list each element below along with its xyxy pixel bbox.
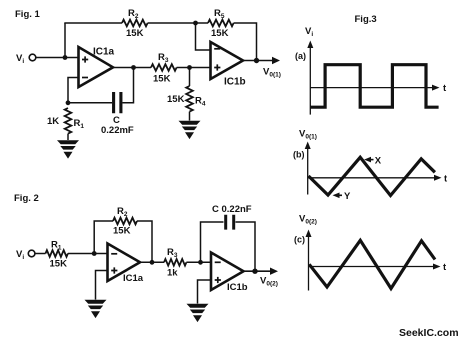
wire IC1a + input to ground (96, 271, 108, 300)
minus sign IC1b (214, 48, 220, 50)
resistor R3 (151, 64, 177, 71)
svg-text:IC1b: IC1b (227, 282, 248, 293)
junction Fig.2 mid node (150, 260, 155, 265)
svg-text:R4: R4 (195, 96, 206, 108)
svg-text:IC1b: IC1b (224, 77, 246, 88)
arrowhead t-axis (plot a) (432, 85, 440, 91)
wire junction to R5 (196, 22, 209, 24)
axis vertical (plot a) (309, 46, 311, 115)
plus sign IC1b (214, 64, 220, 70)
svg-text:SeekIC.com: SeekIC.com (399, 327, 459, 339)
resistor R2 (Fig.2) (113, 218, 137, 225)
wire R2 to junction (148, 22, 196, 24)
svg-text:V0(1): V0(1) (299, 129, 317, 141)
op-amp IC1a (Fig.2) (108, 244, 141, 282)
svg-text:V0(2): V0(2) (260, 276, 278, 288)
waveform square wave Vi (311, 65, 439, 108)
svg-text:R1: R1 (74, 118, 85, 130)
wire IC1b + input to ground (Fig.2) (198, 280, 212, 304)
svg-text:Fig. 1: Fig. 1 (15, 9, 41, 20)
svg-text:15K: 15K (167, 94, 185, 105)
resistor R3 (Fig.2) (164, 259, 186, 266)
axis horizontal (plot a) (310, 87, 434, 89)
ground (R4) (179, 121, 201, 139)
wire R3 to IC1b - input (Fig.2) (186, 261, 211, 263)
wire Vi to R1 (35, 253, 46, 255)
junction R4 node (187, 65, 192, 70)
svg-text:t: t (443, 262, 447, 273)
svg-text:1K: 1K (47, 116, 59, 127)
plus sign IC1a (Fig.2) (111, 267, 117, 273)
plus sign IC1b (Fig.2) (215, 277, 221, 283)
wire Vi to IC1a + input (36, 57, 79, 59)
waveform triangle V0(2) (309, 240, 435, 288)
axis vertical (plot c) (308, 235, 310, 291)
junction input node (63, 55, 68, 60)
wire R2 to output node (137, 221, 152, 262)
svg-text:R5: R5 (214, 8, 225, 20)
svg-text:t: t (444, 174, 448, 185)
svg-text:15K: 15K (113, 226, 131, 237)
arrow output V0(2) (270, 268, 278, 275)
wire feedback up and to R2 (94, 221, 113, 254)
resistor R5 (208, 20, 234, 27)
svg-text:V0(1): V0(1) (263, 67, 281, 79)
wire node down to R4 (189, 68, 191, 87)
ground (IC1b Fig.2) (187, 304, 209, 322)
wire IC1b output (Fig.2) (244, 270, 272, 272)
svg-text:t: t (443, 83, 447, 94)
wire node to capacitor C (68, 102, 112, 104)
wire IC1a - input loop (68, 78, 79, 103)
resistor R1 (65, 108, 72, 134)
junction output node V0(2) (252, 269, 257, 274)
wire top junction down to IC1b - input (196, 23, 211, 50)
wire top rail to R2 (64, 22, 122, 24)
wire junction up to top rail (64, 23, 66, 58)
svg-text:Y: Y (344, 191, 351, 202)
svg-text:Fig. 2: Fig. 2 (14, 193, 39, 204)
wire capacitor to output node (Fig.2) (236, 222, 256, 271)
junction feedback node (66, 100, 71, 105)
svg-text:V0(2): V0(2) (299, 214, 317, 226)
svg-text:X: X (375, 155, 382, 166)
wire IC1a output to R3 (Fig.2) (140, 261, 164, 263)
arrowhead v-axis (plot b) (305, 142, 311, 150)
resistor R4 (186, 86, 193, 112)
capacitor C (Fig.2) (226, 215, 234, 230)
resistor R1 (Fig.2) (46, 250, 68, 257)
svg-text:IC1a: IC1a (93, 47, 115, 58)
wire R5 to output node (234, 23, 257, 60)
svg-text:15K: 15K (211, 28, 229, 39)
minus sign IC1a (82, 77, 88, 79)
svg-text:R3: R3 (158, 52, 169, 64)
svg-text:R2: R2 (117, 206, 128, 218)
resistor R2 (122, 20, 148, 27)
junction top node (193, 21, 198, 26)
svg-text:Vi: Vi (16, 249, 24, 261)
wire capacitor to output junction (123, 68, 134, 103)
ground (R1) (57, 140, 79, 158)
svg-text:(a): (a) (295, 51, 306, 61)
svg-text:(c): (c) (294, 235, 305, 245)
wire R3 to IC1b + input (177, 67, 211, 69)
svg-text:15K: 15K (50, 259, 68, 270)
op-amp IC1b (Fig.2) (211, 253, 244, 291)
junction cap node (198, 260, 203, 265)
wire cap feedback up (201, 222, 224, 262)
arrow X (367, 159, 374, 161)
minus sign IC1b (Fig.2) (215, 261, 221, 263)
svg-text:15K: 15K (126, 28, 144, 39)
wire IC1b output (243, 60, 273, 62)
svg-text:15K: 15K (153, 74, 171, 85)
arrow Y (336, 194, 343, 196)
arrow output V0(1) (272, 57, 280, 64)
minus sign IC1a (Fig.2) (111, 253, 117, 255)
svg-text:R3: R3 (167, 247, 178, 259)
axis horizontal (plot c) (309, 266, 436, 268)
svg-text:C 0.22nF: C 0.22nF (212, 204, 252, 215)
plus sign IC1a (82, 56, 88, 62)
wire IC1a output to R3 (113, 67, 151, 69)
svg-text:R2: R2 (128, 8, 139, 20)
junction Fig.2 input node (92, 251, 97, 256)
op-amp IC1a (79, 47, 114, 87)
svg-text:(b): (b) (293, 150, 305, 160)
node Vi (Fig.2 input terminal) (28, 250, 35, 257)
capacitor C (114, 92, 121, 113)
waveform triangle V0(1) (309, 157, 435, 195)
svg-text:IC1a: IC1a (123, 273, 144, 284)
axis horizontal (plot b) (308, 177, 436, 179)
svg-text:Fig.3: Fig.3 (355, 14, 377, 25)
wire R1 to IC1a - input (68, 253, 108, 255)
svg-text:Vi: Vi (16, 53, 24, 65)
ground (IC1a Fig.2) (85, 300, 107, 318)
svg-text:Vi: Vi (305, 26, 313, 38)
wire R1 to ground (67, 134, 69, 140)
node Vi (Fig.1 input terminal) (29, 54, 36, 61)
arrowhead v-axis (plot a) (307, 41, 313, 49)
svg-text:R1: R1 (51, 240, 62, 252)
junction output node V0(1) (254, 58, 259, 63)
svg-text:0.22mF: 0.22mF (101, 125, 134, 136)
axis vertical (plot b) (307, 147, 309, 195)
junction IC1a output node (131, 65, 136, 70)
op-amp IC1b (211, 42, 244, 79)
wire R4 to ground (189, 112, 191, 121)
svg-text:1k: 1k (167, 268, 178, 279)
arrowhead v-axis (plot c) (306, 230, 312, 238)
arrowhead t-axis (plot c) (433, 264, 441, 270)
arrowhead t-axis (plot b) (434, 175, 442, 181)
